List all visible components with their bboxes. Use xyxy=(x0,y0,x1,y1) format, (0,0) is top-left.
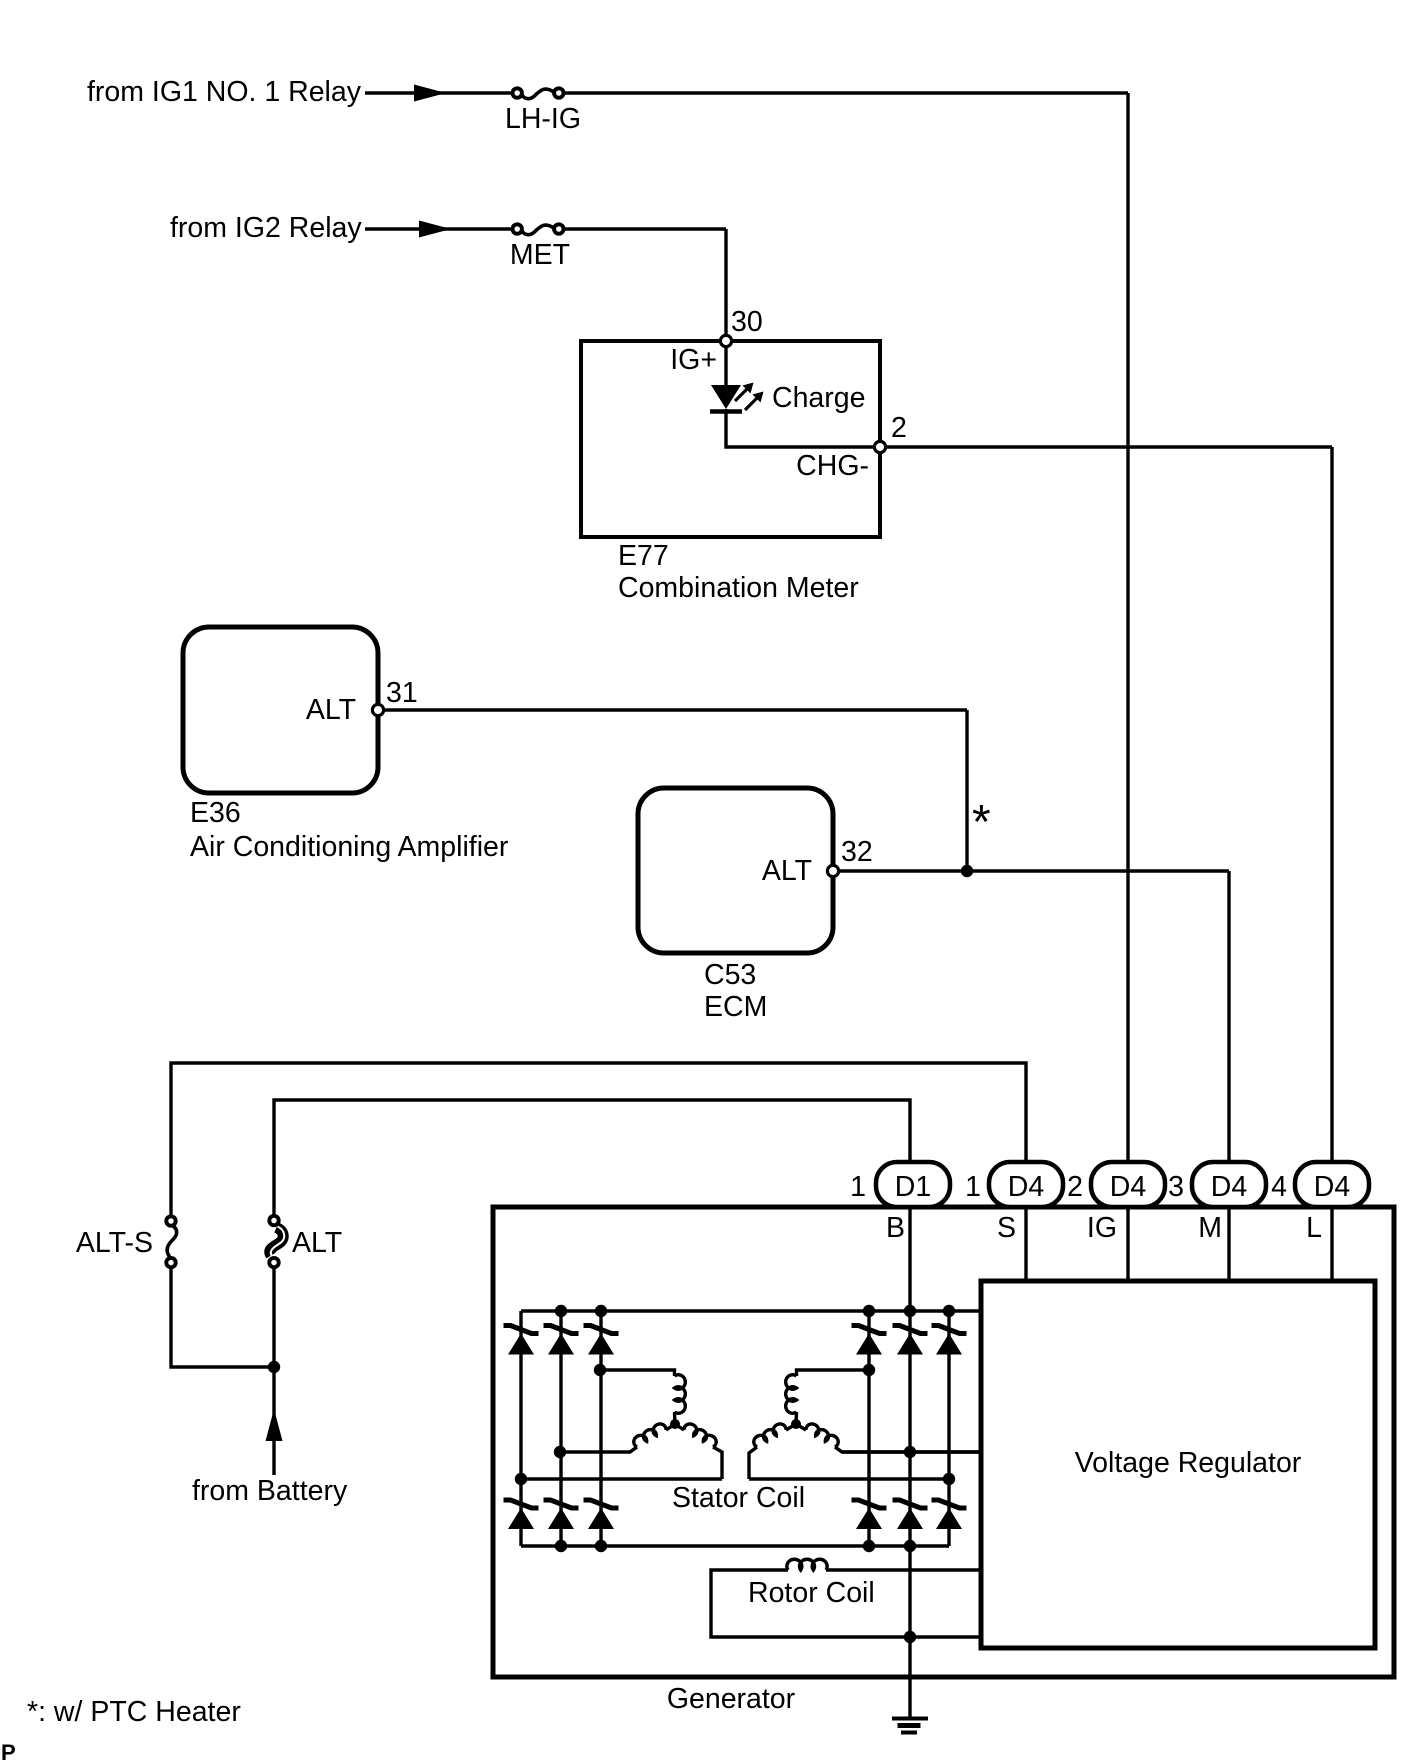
diode D-b4 xyxy=(852,1500,887,1529)
rotor coil box xyxy=(711,1570,981,1637)
fuse LH-IG xyxy=(513,88,564,98)
terminal 32 xyxy=(827,865,838,876)
svg-text:32: 32 xyxy=(841,836,873,868)
junction top bus dots xyxy=(555,1305,955,1317)
stator coil left phase U wire xyxy=(600,1370,675,1376)
wire ALT 32 to connector D4 pin 3 xyxy=(839,871,1229,1164)
stator left dots xyxy=(515,1364,606,1485)
svg-text:Combination Meter: Combination Meter xyxy=(618,572,859,604)
diode D-a6 xyxy=(932,1326,967,1355)
wire LED to CHG- xyxy=(726,409,874,447)
stator coil right V winding xyxy=(752,1422,787,1448)
terminal 30 xyxy=(720,335,731,346)
stator right neutral dot xyxy=(791,1419,801,1429)
generator box xyxy=(493,1207,1394,1677)
svg-text:from IG2 Relay: from IG2 Relay xyxy=(170,212,362,244)
diode D-a5 xyxy=(893,1326,928,1355)
stator coil left V winding xyxy=(632,1422,667,1448)
ground xyxy=(892,1719,928,1733)
junction battery xyxy=(268,1361,280,1373)
svg-text:P: P xyxy=(1,1740,16,1763)
wire ALT-S to S terminal xyxy=(171,1063,1026,1216)
fusible link ALT xyxy=(269,1216,284,1268)
wire M to regulator xyxy=(1227,1207,1230,1281)
connector D1 pin 1 xyxy=(876,1162,950,1207)
wire LH-IG feed xyxy=(365,91,1128,94)
stator coil left W wire xyxy=(521,1447,722,1479)
stator coil right V wire xyxy=(749,1447,949,1479)
svg-text:LH-IG: LH-IG xyxy=(505,103,581,135)
diode D-a4 xyxy=(852,1326,887,1355)
svg-text:MET: MET xyxy=(510,239,570,271)
svg-text:D4: D4 xyxy=(1110,1171,1147,1203)
svg-text:30: 30 xyxy=(731,306,763,338)
connector D4 pin 2 xyxy=(1091,1162,1165,1207)
svg-text:ALT: ALT xyxy=(292,1227,342,1259)
connector D4 pin 1 xyxy=(989,1162,1063,1207)
fuse ALT-S xyxy=(166,1216,176,1267)
svg-text:Voltage Regulator: Voltage Regulator xyxy=(1075,1447,1302,1479)
svg-text:Rotor Coil: Rotor Coil xyxy=(748,1577,875,1609)
svg-text:1: 1 xyxy=(850,1171,866,1203)
terminal 2 xyxy=(874,441,885,452)
ECM box C53 xyxy=(638,788,833,953)
rotor coil winding xyxy=(787,1559,827,1570)
stator coil right U winding xyxy=(786,1375,797,1414)
svg-text:D4: D4 xyxy=(1008,1171,1045,1203)
wire MET feed xyxy=(365,229,726,336)
diode D-b5 xyxy=(893,1500,928,1529)
svg-text:S: S xyxy=(997,1212,1016,1244)
stator right neutral wires xyxy=(786,1412,806,1430)
svg-text:C53: C53 xyxy=(704,959,756,991)
diode D-b1 xyxy=(504,1500,539,1529)
svg-text:1: 1 xyxy=(965,1171,981,1203)
arrow into LH-IG xyxy=(414,85,446,102)
svg-text:E36: E36 xyxy=(190,797,241,829)
wire L to regulator xyxy=(1330,1207,1333,1281)
diode D-b6 xyxy=(932,1500,967,1529)
wire IG vertical to connector D4 pin 2 xyxy=(1126,93,1129,1164)
A/C amplifier box E36 xyxy=(183,627,378,793)
wire IG+ to LED xyxy=(724,347,727,386)
svg-text:Stator Coil: Stator Coil xyxy=(672,1482,805,1514)
svg-text:IG: IG xyxy=(1087,1212,1117,1244)
stator coil left V wire xyxy=(560,1447,637,1452)
terminal 31 xyxy=(372,704,383,715)
svg-text:ALT: ALT xyxy=(762,855,812,887)
diode D-b3 xyxy=(584,1500,619,1529)
connector D4 pin 3 xyxy=(1192,1162,1266,1207)
svg-text:M: M xyxy=(1198,1212,1222,1244)
rotor coil bottom dot xyxy=(904,1631,916,1643)
svg-text:ALT: ALT xyxy=(306,694,356,726)
stator coil left U winding xyxy=(675,1375,686,1414)
arrow from battery xyxy=(266,1409,283,1441)
svg-text:L: L xyxy=(1306,1212,1322,1244)
svg-text:from Battery: from Battery xyxy=(192,1475,348,1507)
wire ALT 31 to junction xyxy=(384,710,967,871)
stator coil left W winding xyxy=(683,1422,718,1448)
diode D-a2 xyxy=(544,1326,579,1355)
svg-text:IG+: IG+ xyxy=(670,344,717,376)
diode D-a1 xyxy=(504,1326,539,1355)
svg-text:D4: D4 xyxy=(1314,1171,1351,1203)
wire ALT to B terminal xyxy=(274,1100,910,1215)
junction bottom bus dots xyxy=(555,1540,916,1552)
svg-text:2: 2 xyxy=(891,412,907,444)
svg-text:D4: D4 xyxy=(1211,1171,1248,1203)
wire ALT lower xyxy=(272,1268,275,1475)
wire S to regulator xyxy=(1024,1207,1027,1281)
voltage regulator box xyxy=(981,1281,1375,1648)
svg-text:ALT-S: ALT-S xyxy=(76,1227,153,1259)
svg-text:Charge: Charge xyxy=(772,382,865,414)
wire IG to regulator xyxy=(1126,1207,1129,1281)
stator coil right W winding xyxy=(805,1422,840,1448)
svg-text:Generator: Generator xyxy=(667,1683,796,1715)
arrow into MET xyxy=(419,221,451,238)
stator coil right phase U wire xyxy=(797,1370,870,1376)
stator left neutral wires xyxy=(666,1412,684,1430)
junction PTC xyxy=(961,865,973,877)
LED charge lamp xyxy=(710,383,764,412)
diode bridge top bus xyxy=(521,1309,981,1312)
diode D-b2 xyxy=(544,1500,579,1529)
wire stator mid to regulator xyxy=(842,1450,981,1453)
wire ALT-S lower xyxy=(171,1268,274,1367)
diode bridge bottom bus xyxy=(521,1544,949,1547)
svg-text:31: 31 xyxy=(386,677,418,709)
stator right dots xyxy=(863,1364,955,1485)
svg-text:4: 4 xyxy=(1271,1171,1287,1203)
svg-text:D1: D1 xyxy=(895,1171,931,1203)
svg-text:from IG1 NO. 1 Relay: from IG1 NO. 1 Relay xyxy=(87,76,362,108)
svg-text:E77: E77 xyxy=(618,540,669,572)
wire B bus vertical to ground xyxy=(908,1207,911,1717)
svg-text:B: B xyxy=(886,1212,905,1244)
connector D4 pin 4 xyxy=(1295,1162,1369,1207)
diode D-a3 xyxy=(584,1326,619,1355)
svg-text:Air Conditioning Amplifier: Air Conditioning Amplifier xyxy=(190,831,509,863)
stator left neutral dot xyxy=(670,1419,680,1429)
svg-text:*: w/ PTC Heater: *: w/ PTC Heater xyxy=(27,1696,241,1728)
stator coil right W wire xyxy=(835,1447,981,1452)
rectifier columns xyxy=(521,1311,949,1546)
combination meter box E77 xyxy=(581,341,880,537)
svg-text:3: 3 xyxy=(1168,1171,1184,1203)
svg-text:2: 2 xyxy=(1067,1171,1083,1203)
svg-text:CHG-: CHG- xyxy=(796,450,869,482)
svg-text:*: * xyxy=(972,796,991,849)
fuse MET xyxy=(513,224,564,234)
wire CHG- to connector D4 pin 4 xyxy=(887,447,1332,1164)
svg-text:ECM: ECM xyxy=(704,991,767,1023)
